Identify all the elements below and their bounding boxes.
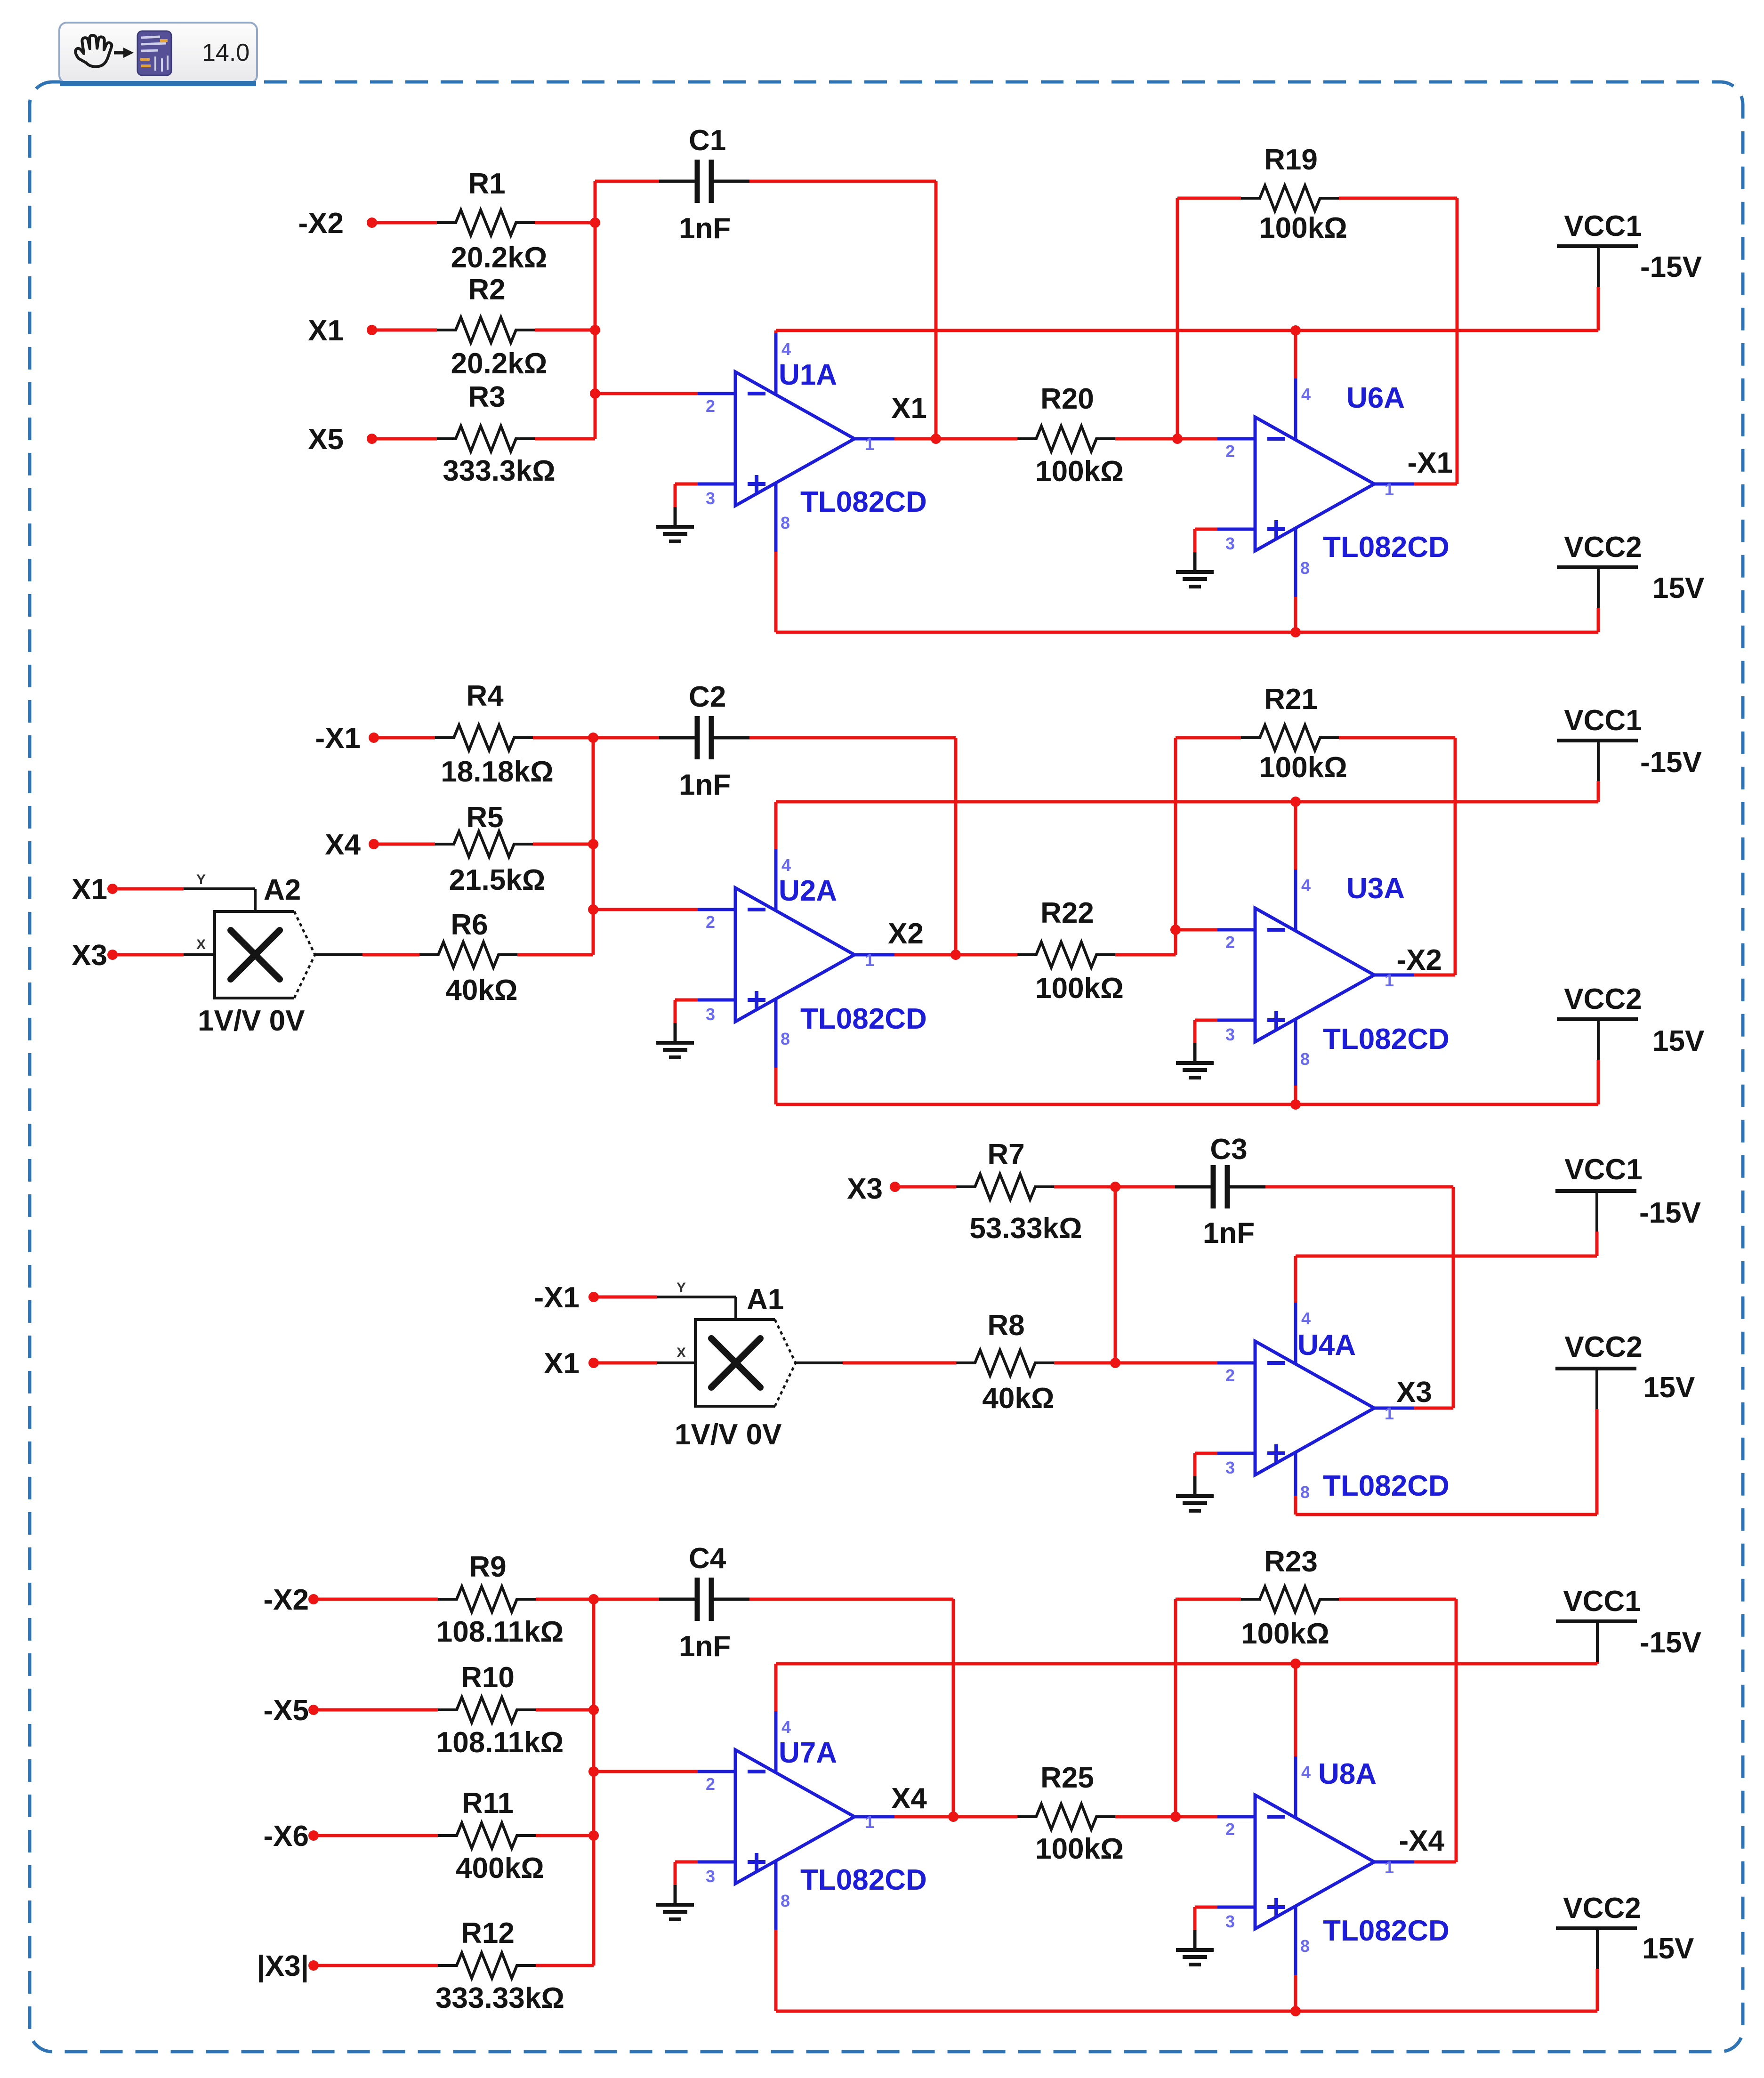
svg-text:100kΩ: 100kΩ (1259, 212, 1347, 244)
svg-text:VCC1: VCC1 (1564, 1153, 1642, 1186)
svg-text:100kΩ: 100kΩ (1241, 1618, 1329, 1650)
svg-text:X4: X4 (325, 829, 361, 861)
svg-text:R12: R12 (461, 1917, 515, 1949)
svg-text:U7A: U7A (779, 1737, 837, 1769)
svg-text:40kΩ: 40kΩ (445, 974, 517, 1007)
svg-text:100kΩ: 100kΩ (1035, 1833, 1124, 1865)
svg-text:VCC1: VCC1 (1564, 210, 1642, 242)
svg-text:-X6: -X6 (264, 1820, 309, 1852)
svg-text:U1A: U1A (779, 359, 837, 391)
svg-text:TL082CD: TL082CD (800, 486, 927, 518)
svg-text:R8: R8 (987, 1309, 1024, 1342)
svg-text:40kΩ: 40kΩ (982, 1382, 1054, 1415)
svg-text:4: 4 (781, 1717, 791, 1737)
svg-text:100kΩ: 100kΩ (1259, 751, 1347, 784)
svg-text:4: 4 (781, 339, 791, 359)
svg-text:3: 3 (1225, 1458, 1235, 1477)
svg-text:R23: R23 (1264, 1546, 1318, 1578)
svg-text:2: 2 (1225, 1820, 1235, 1839)
svg-text:4: 4 (1301, 1309, 1311, 1328)
svg-text:-X1: -X1 (315, 722, 361, 755)
svg-text:X: X (677, 1345, 686, 1361)
svg-text:-X2: -X2 (1397, 944, 1442, 976)
svg-text:VCC1: VCC1 (1563, 1585, 1641, 1618)
svg-text:15V: 15V (1652, 1025, 1704, 1057)
svg-text:2: 2 (706, 1774, 715, 1794)
svg-text:2: 2 (1225, 442, 1235, 461)
svg-text:2: 2 (706, 912, 715, 932)
svg-text:X1: X1 (544, 1347, 580, 1380)
svg-text:C2: C2 (689, 681, 726, 713)
svg-text:4: 4 (781, 855, 791, 875)
svg-text:VCC2: VCC2 (1564, 1331, 1642, 1363)
svg-text:3: 3 (706, 489, 715, 508)
svg-text:21.5kΩ: 21.5kΩ (449, 864, 546, 896)
svg-text:1nF: 1nF (679, 212, 731, 245)
svg-text:18.18kΩ: 18.18kΩ (441, 756, 553, 788)
svg-text:4: 4 (1301, 385, 1311, 404)
svg-text:R7: R7 (987, 1138, 1024, 1171)
svg-text:20.2kΩ: 20.2kΩ (451, 347, 548, 380)
svg-text:VCC2: VCC2 (1563, 1892, 1641, 1925)
svg-text:108.11kΩ: 108.11kΩ (436, 1726, 564, 1759)
svg-text:X1: X1 (308, 314, 344, 347)
svg-text:U2A: U2A (779, 875, 837, 907)
svg-text:-15V: -15V (1640, 251, 1702, 283)
svg-text:R21: R21 (1264, 683, 1318, 716)
svg-text:C3: C3 (1210, 1133, 1247, 1166)
svg-text:4: 4 (1301, 876, 1311, 895)
svg-text:15V: 15V (1642, 1933, 1694, 1965)
svg-text:TL082CD: TL082CD (1323, 1470, 1450, 1502)
svg-text:U6A: U6A (1346, 382, 1405, 414)
svg-text:R9: R9 (469, 1551, 506, 1583)
svg-text:|X3|: |X3| (257, 1950, 309, 1983)
svg-text:1V/V 0V: 1V/V 0V (198, 1005, 305, 1037)
svg-text:X: X (196, 937, 206, 952)
svg-text:Y: Y (677, 1280, 686, 1296)
svg-text:R5: R5 (466, 801, 503, 834)
svg-text:VCC2: VCC2 (1564, 983, 1642, 1015)
svg-text:333.33kΩ: 333.33kΩ (435, 1982, 564, 2014)
svg-text:1nF: 1nF (679, 1630, 731, 1663)
svg-text:1: 1 (1385, 480, 1394, 499)
svg-text:8: 8 (781, 1029, 790, 1048)
svg-text:A1: A1 (747, 1283, 784, 1316)
svg-text:400kΩ: 400kΩ (456, 1852, 544, 1885)
svg-text:100kΩ: 100kΩ (1035, 455, 1124, 488)
svg-text:15V: 15V (1643, 1371, 1695, 1404)
svg-text:TL082CD: TL082CD (1323, 531, 1450, 564)
svg-text:-15V: -15V (1639, 1197, 1701, 1229)
svg-text:20.2kΩ: 20.2kΩ (451, 242, 548, 274)
svg-text:2: 2 (706, 396, 715, 416)
svg-text:-15V: -15V (1640, 1627, 1701, 1659)
svg-text:R2: R2 (468, 274, 505, 306)
svg-text:-X5: -X5 (264, 1694, 309, 1727)
svg-text:R6: R6 (451, 909, 488, 941)
svg-text:VCC1: VCC1 (1564, 704, 1642, 737)
svg-text:1: 1 (1385, 1404, 1394, 1423)
svg-text:C1: C1 (689, 124, 726, 157)
svg-text:8: 8 (781, 1891, 790, 1910)
svg-text:1: 1 (1385, 971, 1394, 990)
svg-text:100kΩ: 100kΩ (1035, 972, 1124, 1005)
svg-text:8: 8 (1300, 1482, 1310, 1502)
svg-text:X5: X5 (308, 423, 344, 456)
svg-text:-X1: -X1 (1408, 447, 1453, 479)
svg-text:4: 4 (1301, 1763, 1311, 1782)
svg-text:-X2: -X2 (298, 207, 344, 240)
svg-text:3: 3 (706, 1005, 715, 1024)
svg-text:A2: A2 (264, 874, 301, 906)
svg-text:VCC2: VCC2 (1564, 531, 1642, 564)
svg-text:2: 2 (1225, 933, 1235, 952)
svg-text:53.33kΩ: 53.33kΩ (969, 1212, 1082, 1245)
svg-text:2: 2 (1225, 1366, 1235, 1385)
svg-text:3: 3 (1225, 1025, 1235, 1044)
svg-text:TL082CD: TL082CD (800, 1003, 927, 1035)
svg-text:1V/V 0V: 1V/V 0V (675, 1418, 781, 1451)
svg-text:1: 1 (865, 1812, 874, 1832)
svg-text:TL082CD: TL082CD (1323, 1023, 1450, 1055)
svg-text:14.0: 14.0 (202, 39, 250, 66)
svg-text:1: 1 (865, 950, 874, 970)
svg-text:R1: R1 (468, 168, 505, 200)
svg-text:-15V: -15V (1640, 746, 1702, 779)
svg-text:X2: X2 (888, 918, 924, 950)
svg-text:TL082CD: TL082CD (1323, 1915, 1450, 1947)
svg-text:3: 3 (706, 1867, 715, 1886)
svg-text:Y: Y (196, 872, 206, 887)
svg-text:8: 8 (781, 513, 790, 532)
svg-text:X3: X3 (72, 939, 107, 972)
svg-text:R4: R4 (466, 680, 504, 712)
svg-text:X3: X3 (847, 1173, 883, 1205)
svg-text:X1: X1 (891, 392, 927, 425)
svg-text:333.3kΩ: 333.3kΩ (443, 455, 555, 487)
svg-text:X3: X3 (1396, 1376, 1432, 1409)
svg-text:R22: R22 (1040, 897, 1094, 929)
svg-text:-X2: -X2 (264, 1584, 309, 1616)
svg-text:15V: 15V (1652, 572, 1704, 604)
svg-text:R10: R10 (461, 1661, 515, 1694)
svg-text:-X1: -X1 (534, 1281, 580, 1314)
svg-text:1nF: 1nF (679, 769, 731, 801)
svg-text:R25: R25 (1040, 1762, 1094, 1794)
svg-text:1: 1 (1385, 1858, 1394, 1877)
svg-text:R20: R20 (1040, 383, 1094, 415)
svg-text:3: 3 (1225, 1912, 1235, 1931)
svg-text:8: 8 (1300, 1936, 1310, 1956)
svg-text:U3A: U3A (1346, 872, 1405, 905)
svg-text:U8A: U8A (1318, 1758, 1377, 1790)
svg-text:X1: X1 (72, 873, 107, 906)
svg-text:8: 8 (1300, 558, 1310, 578)
svg-text:3: 3 (1225, 534, 1235, 553)
svg-text:-X4: -X4 (1399, 1825, 1445, 1857)
svg-text:X4: X4 (891, 1782, 927, 1815)
svg-text:R19: R19 (1264, 144, 1318, 176)
svg-text:8: 8 (1300, 1049, 1310, 1069)
svg-text:C4: C4 (689, 1542, 726, 1575)
svg-text:TL082CD: TL082CD (800, 1864, 927, 1896)
svg-text:108.11kΩ: 108.11kΩ (436, 1616, 564, 1648)
svg-text:R3: R3 (468, 381, 505, 413)
svg-text:1nF: 1nF (1203, 1217, 1255, 1249)
svg-text:1: 1 (865, 435, 874, 454)
svg-text:R11: R11 (462, 1787, 514, 1820)
svg-text:U4A: U4A (1297, 1329, 1356, 1361)
